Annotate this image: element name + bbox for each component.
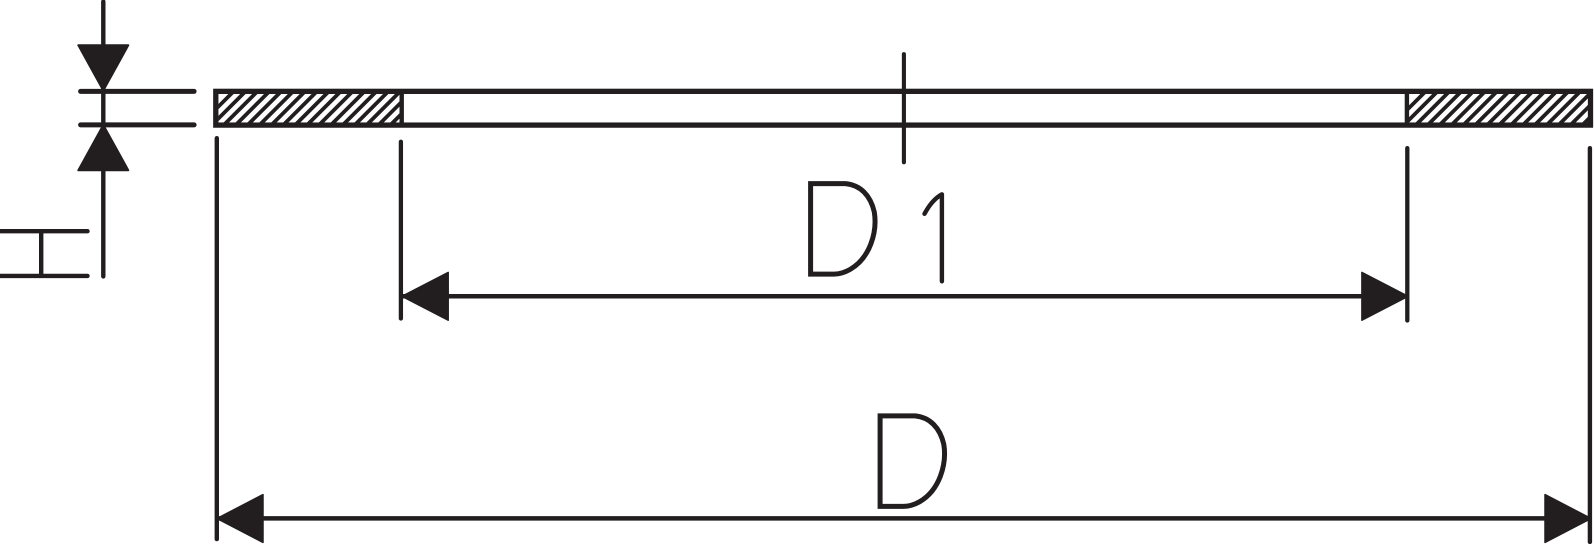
right hatch section [1392, 89, 1594, 125]
dimension D line [218, 516, 1590, 521]
dimension D1 line [403, 294, 1407, 299]
label D1 letter D [811, 181, 875, 277]
right hatch start line [1405, 90, 1409, 127]
dimension H vertical line [101, 2, 105, 277]
dimension H upper extension line [81, 89, 195, 94]
washer outline [216, 91, 1591, 125]
dimension D right extension line [1588, 148, 1592, 542]
label D1 digit 1 [925, 194, 942, 281]
dimension D1 left arrow [402, 272, 448, 320]
dimension H lower extension line [81, 122, 195, 127]
left hatch end line [400, 90, 404, 127]
dimension D left arrow [217, 495, 263, 543]
label D letter D [880, 413, 944, 509]
dimension D1 left extension line [399, 142, 403, 319]
dimension H down arrow [78, 45, 128, 90]
dimension D1 right arrow [1362, 272, 1408, 320]
dimension H up arrow [78, 125, 128, 170]
label H (rotated) [0, 231, 88, 276]
dimension D right arrow [1545, 495, 1591, 543]
dimension D1 right extension line [1405, 148, 1409, 320]
left hatch section [200, 89, 438, 125]
centerline tick [902, 54, 906, 162]
dimension D left extension line [215, 138, 219, 539]
